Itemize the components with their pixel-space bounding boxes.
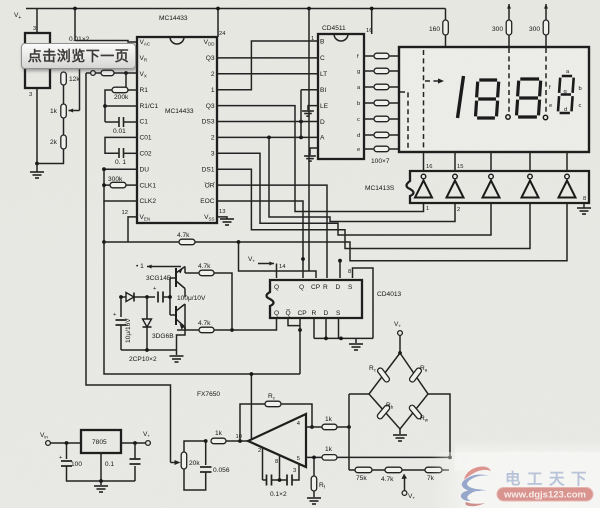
capacitor 0.1 (119, 148, 124, 158)
buffer inverter 1 (415, 174, 432, 197)
wire driver gnd (583, 203, 585, 208)
wire rail to CLK2 (104, 169, 137, 201)
resistor 4.7k clock (179, 239, 195, 245)
wire pin14 (276, 264, 278, 279)
wire to cap 0.1 (134, 443, 136, 459)
wire diode2 top (146, 297, 148, 319)
wire display to buffer2 (454, 152, 456, 171)
wire 300 to display (545, 35, 547, 47)
capacitor 10u/16V electrolytic (116, 320, 127, 325)
wire 200k left leg (105, 90, 112, 122)
wire display to buffer5 (566, 152, 568, 171)
wire to buffer2 (269, 137, 455, 221)
junction pin4 fb (310, 425, 314, 429)
junction input node (204, 439, 208, 443)
resistor 4.7k lower (199, 327, 214, 333)
transistor 3DG6B NPN (176, 304, 185, 327)
potentiometer 4.7k (385, 467, 402, 473)
junction feedback (238, 439, 242, 443)
overlay button (21, 43, 136, 69)
ground bridge (393, 435, 407, 441)
wire (100, 481, 102, 485)
LED display module (399, 47, 589, 152)
wire 200k to R1 (128, 89, 137, 91)
wire 4511 pin16 to rail (371, 9, 373, 35)
junction EOC drop (301, 257, 305, 261)
junction node sensor/2k (35, 162, 39, 166)
wire mid up pin8 (279, 455, 281, 480)
wire left frame (348, 394, 350, 470)
ground left chain (30, 172, 44, 178)
wire (508, 14, 510, 20)
wire V+ to bridge top (399, 336, 401, 354)
wire 10u down (120, 325, 122, 350)
junction bus2 a (324, 337, 328, 341)
ground 4013 (349, 344, 363, 350)
wire to opamp (226, 440, 248, 442)
wire diode to cap (134, 296, 155, 298)
wire to ground (36, 164, 38, 173)
wire seg b stub (364, 102, 374, 104)
wire cap b to pin3 (292, 464, 299, 480)
wire Q1 to 4511 B (217, 41, 318, 90)
arrow V+ digit3 (545, 4, 547, 14)
wire 7805 out (121, 442, 146, 444)
IC CD4511 decoder (318, 34, 364, 159)
wire to Vx pin (114, 72, 137, 74)
wire to Rf (313, 457, 315, 476)
wire seg a to display (389, 86, 399, 88)
wire caps row to VAC (75, 41, 137, 43)
junction caps mid (278, 478, 282, 482)
wire to R1/C1 pin (105, 105, 137, 107)
wire bottom rail c (402, 469, 425, 471)
wire 4013 D bottom (325, 318, 327, 338)
wire 300k left (104, 184, 110, 186)
wire feedback right (281, 404, 312, 427)
digit 8 third (558, 76, 574, 113)
watermark red banner (497, 488, 593, 502)
wire 1k to 2k (63, 118, 65, 135)
buffer inverter 3 (483, 174, 500, 197)
wire seg e to display (389, 148, 399, 150)
capacitor C1 0.01 (119, 117, 124, 127)
resistor 200k (112, 87, 128, 93)
wire 4.7k row to buffer5 (195, 203, 567, 261)
wire 4013 CP bottom (299, 318, 301, 326)
wire sensor stem (36, 9, 38, 34)
wire Vin to 7805 (51, 442, 82, 444)
wire display to buffer1 (423, 152, 425, 171)
resistor Rc bridge (377, 367, 391, 383)
dashed dp line digit2 (508, 48, 510, 114)
wire feedback up (240, 404, 265, 441)
wire to 4511 BI (301, 89, 318, 91)
wire to 0.056 (205, 441, 207, 465)
capacitor 0.1 b (287, 475, 292, 486)
junction CP/Q cross (298, 328, 302, 332)
wire 4013 R bottom (313, 318, 315, 338)
wire seg b to display (389, 102, 399, 104)
wire to base1 (170, 277, 176, 279)
op-amp FX7650 triangle (248, 414, 306, 467)
wire Vx row left (86, 72, 91, 74)
junction rail 4511 (370, 7, 374, 11)
wire seg d to display (389, 134, 399, 136)
resistor 300 b (543, 20, 549, 35)
junction cap10u (119, 295, 123, 299)
wire to 4.7k (185, 272, 199, 274)
IC MC1413S driver (407, 171, 590, 203)
wire 3CG14B collector down (184, 289, 186, 298)
resistor 1k a (322, 424, 337, 430)
wire diode row left (121, 296, 126, 298)
wire V+ top rail (26, 8, 446, 10)
ground driver (577, 208, 591, 214)
bridge arms (369, 353, 428, 429)
capacitor 100u/10V (158, 292, 163, 303)
watermark logo (461, 467, 491, 507)
capacitor 0.1 output (130, 459, 141, 464)
junction diode2 (145, 295, 149, 299)
junction out cap (133, 441, 137, 445)
wire Q0 row to buffer1 (217, 106, 424, 212)
terminal V+ adj (402, 491, 407, 496)
wire seg g stub (364, 70, 374, 72)
wire diode2 down (146, 327, 148, 350)
potentiometer 20k (181, 452, 187, 469)
junction bases (168, 295, 172, 299)
resistor 4.7k upper (199, 270, 214, 276)
resistor 75k (355, 467, 372, 473)
diode 2CP10 b (143, 319, 152, 327)
digit 8 first (476, 80, 499, 118)
capacitor 100 electrolytic (61, 461, 72, 466)
junction in cap (65, 441, 69, 445)
wire wiper to caps node (79, 69, 81, 111)
wire 4013 Qbar tie (288, 318, 300, 326)
junction Vx/200k (124, 71, 128, 75)
IC 7805 regulator (81, 430, 121, 453)
wire VSS (217, 217, 227, 219)
sensor box (pressure transducer) (25, 33, 50, 88)
junction osc node (237, 240, 241, 244)
svg-text:电工天下: 电工天下 (505, 469, 593, 488)
wire 4013 S loop (353, 268, 374, 338)
wire seg g to display (389, 70, 399, 72)
ground Rf (307, 498, 321, 504)
wire cap to C1 pin (124, 121, 138, 123)
wire seg a stub (364, 86, 374, 88)
dashed select line digit1 (423, 50, 425, 149)
junction opamp feed (250, 372, 254, 376)
wire down to 200k (125, 73, 127, 90)
resistor 100 seg a (374, 84, 389, 90)
arrow to 1 (147, 266, 166, 268)
wire cap left (105, 121, 119, 123)
junction DU rail (102, 167, 106, 171)
wire to cap100 (66, 443, 68, 459)
junction osc output (230, 328, 234, 332)
wire 3CG14B emitter up (184, 267, 186, 274)
wire 4511 gnd pin (310, 148, 318, 155)
wire LE to ground (308, 106, 318, 110)
wire seg d stub (364, 134, 374, 136)
potentiometer 1k (61, 104, 67, 118)
wire clock to 4013 CP (239, 242, 317, 278)
op-amp ... main IC MC14433 (137, 37, 217, 223)
wire 300k to CLK1 (126, 184, 137, 186)
wire 160 to display (445, 35, 447, 47)
wire 2k to ground node (37, 149, 64, 164)
wire to base2 (170, 314, 176, 316)
wire EOC to 4013 (217, 201, 303, 278)
resistor 2k (61, 135, 67, 149)
wire bottom rail end (442, 469, 449, 471)
buffer inverter 5 (559, 174, 576, 197)
svg-text:www.dgjs123.com: www.dgjs123.com (503, 490, 586, 501)
resistor 300 a (506, 20, 512, 35)
wire cap 0.1 down (134, 466, 136, 481)
wire cap right (163, 296, 170, 298)
arrow V+ to pin14 (258, 263, 274, 265)
wire (263, 479, 267, 481)
IC notch MC14433 (170, 37, 184, 44)
resistor 1k input (211, 438, 226, 444)
buffer inverter 2 (447, 174, 464, 197)
resistor 100 seg b (374, 100, 389, 106)
paper texture overlay (0, 0, 1, 1)
resistor Vx input (101, 70, 114, 76)
resistor Rw bridge (408, 404, 422, 420)
resistor Rb bridge (376, 404, 390, 420)
junction rail center drop (307, 7, 311, 11)
resistor 300k (110, 182, 126, 188)
wire seg f stub (364, 55, 374, 57)
arrow V+ digit2 (508, 4, 510, 14)
ground LE (302, 111, 314, 116)
wire (545, 14, 547, 20)
resistor 100 seg d (374, 132, 389, 138)
wire to buffer4 (217, 169, 530, 248)
junction 4.7k row (102, 240, 106, 244)
wire to pot arrow (171, 462, 176, 464)
wire wiper down (404, 478, 406, 491)
resistor Rf (311, 476, 317, 491)
wire 4013 Q to oscillator (232, 318, 277, 330)
junction bridge top (398, 351, 402, 355)
resistor 12k (61, 72, 67, 85)
junction gnd rail (99, 479, 103, 483)
wire Q2 to 4511 LT (217, 73, 318, 75)
wire emitter tie (184, 327, 186, 330)
pot wiper arrow 4.7k (402, 474, 408, 480)
wire DU (104, 168, 137, 170)
terminal circle Vx (91, 71, 96, 76)
resistor 7k (425, 467, 442, 473)
wire to 4013 D (339, 261, 341, 278)
wire 0.056 loop (184, 469, 206, 490)
wire display to buffer3 (490, 152, 492, 171)
wire seg c to display (389, 118, 399, 120)
junction bottom (145, 348, 149, 352)
wire DS row to 4511 D (217, 121, 318, 123)
wire to 10u cap (120, 297, 122, 317)
junction D drop (338, 259, 342, 263)
wire 1k a to bridge (337, 426, 349, 428)
dashed pointer (425, 80, 441, 82)
transistor 3CG14B PNP (176, 267, 185, 289)
decimal point 1 (506, 115, 510, 119)
digit 1 (458, 76, 464, 118)
terminal Vplus out (146, 441, 151, 446)
wire bottom rail a (349, 469, 355, 471)
junction rail VDD (216, 7, 220, 11)
resistor 100 seg c (374, 116, 389, 122)
ground VSS (220, 219, 234, 225)
wire rail down (103, 201, 105, 242)
potentiometer 20k wiper arrow (175, 460, 181, 465)
wire bottom bus2 (314, 337, 373, 339)
wire row to 4511 A (217, 136, 318, 138)
terminal Vin (46, 441, 51, 446)
junction D row (299, 120, 303, 124)
wire 1k b to bridge right (337, 456, 450, 458)
wire 7805 gnd pin (100, 453, 102, 481)
junction R1C1 (103, 104, 107, 108)
wire 4013 S bottom (338, 318, 340, 338)
wire bottom tie (121, 349, 177, 351)
resistor 100 seg f (374, 53, 389, 59)
wire 4.7k left (104, 241, 179, 243)
wire bridge left out (349, 393, 369, 395)
wire seg c stub (364, 118, 374, 120)
emitter to ground 3DG6B (177, 327, 186, 355)
wire 4.7k pair join (214, 273, 232, 330)
wire gnd rail 7805 (67, 466, 136, 481)
junction A row (299, 136, 303, 140)
resistor Ra bridge (409, 367, 423, 383)
junction right frame (448, 456, 452, 460)
resistor 1k b (322, 455, 337, 461)
junction T2 feed (267, 136, 271, 140)
dashed corner left (400, 92, 408, 149)
resistor 100 seg e (374, 146, 389, 152)
wire to buffer3 (217, 153, 491, 235)
wire 3DG6B collector seg (184, 304, 186, 330)
wire bridge right out (428, 394, 450, 457)
wire bus2 ground stem (355, 338, 357, 343)
wire Q3 to 4511 C (217, 57, 318, 59)
wire 12k to 1k pot (63, 85, 65, 104)
ground 7805 (94, 486, 108, 492)
wire center vertical (308, 9, 310, 272)
wire rail to caps (behind button) (74, 9, 76, 42)
junction 300k (102, 183, 106, 187)
wire VEN down (128, 217, 137, 242)
capacitor 0.1 a (267, 475, 272, 486)
wire down to opamp input (250, 374, 252, 440)
wire Rf gnd (313, 491, 315, 497)
dashed dp line digit3 (545, 48, 547, 114)
diode 2CP10 a (126, 293, 134, 302)
decimal point 2 (543, 115, 547, 119)
wire CP down (299, 326, 301, 374)
junction rail/cap branch (73, 7, 77, 11)
wire pin4 out (306, 426, 322, 428)
ground 4511 pin8 (304, 156, 316, 161)
pot 1k wiper arrow (69, 110, 80, 112)
wire (96, 72, 102, 74)
wire rail corner down (445, 9, 447, 21)
wire display to buffer4 (529, 152, 531, 171)
wire pin5 out (306, 456, 322, 458)
wire 300 to display (508, 35, 510, 47)
junction bridge left leg (347, 425, 351, 429)
terminal V+ bridge (398, 331, 403, 336)
wire cap to C02 pin (124, 152, 138, 154)
wire BI tie vertical (300, 90, 302, 138)
IC CD4013 dual flip-flop (267, 280, 363, 318)
ground 3DG6B emitter (170, 356, 184, 362)
wire long left rail to 20k pot (86, 73, 171, 463)
wire bottom rail b (372, 469, 385, 471)
junction bus2 b (339, 337, 343, 341)
wire between caps (272, 479, 288, 481)
wire (177, 329, 185, 331)
wire bridge bottom gnd (399, 429, 401, 434)
buffer inverter 4 (522, 174, 539, 197)
capacitor 0.056 (200, 467, 212, 472)
wire C01 loop (105, 137, 137, 153)
wire cap2 left leg (262, 448, 264, 480)
junction Rf (312, 456, 316, 460)
resistor 160 (443, 20, 449, 35)
wire seg e stub (364, 148, 374, 150)
IC notch CD4511 (334, 34, 348, 41)
wire base tie (169, 278, 171, 315)
wire common rail to opamp row (104, 242, 300, 374)
wire pot top to input (184, 441, 206, 452)
wire OR to 4013 R (217, 185, 327, 278)
resistor 100 seg g (374, 68, 389, 74)
wire emitter row (166, 266, 181, 268)
wire seg f to display (389, 55, 399, 57)
wire to lower 4.7k (185, 329, 199, 331)
resistor Rc (265, 401, 281, 407)
digit 8 second (517, 79, 541, 117)
wire sensor to ground node (36, 88, 38, 164)
wire pin24 VDD to rail (217, 9, 219, 38)
